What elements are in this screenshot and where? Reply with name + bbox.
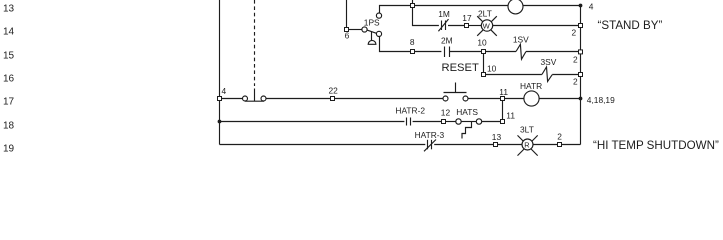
wire: mechanical linkage (dashed) to reset pushbutton above (254, 0, 256, 86)
svg-text:“HI TEMP SHUTDOWN”: “HI TEMP SHUTDOWN” (593, 139, 719, 152)
node: rung number 15 (3, 50, 15, 61)
svg-text:4,18,19: 4,18,19 (587, 95, 615, 105)
pilot light 3LT (red) (518, 135, 538, 155)
wire: rung 14 segment terminal 17 to lamp 2LT (469, 25, 482, 27)
svg-text:17: 17 (3, 96, 15, 107)
svg-text:10: 10 (487, 64, 497, 74)
svg-text:RESET: RESET (442, 62, 479, 74)
terminal 13 (494, 143, 498, 147)
terminal 2 (right bus, rung 15) (579, 50, 583, 54)
node: rung number 13 (3, 3, 15, 14)
terminal on rung 13 branch (411, 4, 415, 8)
wire: tie between terminal 11 rung 17 and terminal 11 rung 18 (502, 101, 504, 120)
wire: rung 17 segment pushbutton to terminal 22 (266, 98, 331, 100)
svg-text:2: 2 (573, 76, 578, 86)
label: wire numbers 4,18,19 (587, 95, 615, 105)
terminal 17 (465, 24, 469, 28)
terminal 10 (rung 15) (482, 50, 486, 54)
pilot light 2LT (white) (477, 16, 497, 36)
svg-text:11: 11 (499, 87, 508, 97)
svg-text:2M: 2M (441, 36, 453, 46)
junction: node 4 at top of right bus (579, 4, 583, 8)
svg-text:18: 18 (3, 120, 15, 131)
wire: rung 19 segment HATR-3 to terminal 13 (434, 144, 493, 146)
wire: drop from rung 12 to terminal 6 (346, 0, 348, 28)
label: "HI TEMP SHUTDOWN" (593, 139, 719, 152)
wire: tie between terminal 10 rung 15 and terminal 10 rung 16 (483, 54, 485, 73)
wire: rung 15 segment terminal 10 to 1SV (486, 51, 517, 53)
wire: rung 14 segment lamp 2LT to right bus terminal 2 (493, 25, 579, 27)
svg-text:12: 12 (441, 108, 451, 118)
label: RESET (442, 62, 479, 74)
wire: rung 16 segment 3SV to right bus terminal 2 (552, 74, 579, 76)
pressure switch 1PS (362, 13, 382, 44)
terminal 22 (331, 97, 335, 101)
contact HATR-2 (NO) (407, 118, 411, 126)
terminal 8 (411, 50, 415, 54)
junction: node 4,18,19 on right bus rung 17 (579, 97, 583, 101)
coil M (rung 13, top cut off) (508, 0, 523, 14)
terminal 12 (442, 120, 446, 124)
wire: rung 15 segment 2M to terminal 10 (450, 51, 482, 53)
node: rung number 14 (3, 26, 15, 37)
svg-text:17: 17 (462, 13, 472, 23)
wire: rung 17 segment terminal 4 to reset NC pushbutton (222, 98, 243, 100)
svg-text:15: 15 (3, 50, 15, 61)
svg-text:6: 6 (345, 31, 350, 41)
wire: rung 19 from left bus to HATR-3 (220, 144, 426, 146)
wire: rung 17 segment coil HATR to right bus (539, 98, 581, 100)
wire: 1PS common to terminal 6 (349, 29, 363, 31)
svg-text:2: 2 (557, 131, 562, 141)
node: rung number 16 (3, 73, 15, 84)
svg-text:1PS: 1PS (364, 17, 380, 27)
wire: branch from rung 13 down to rung 14 (413, 8, 439, 26)
svg-text:19: 19 (3, 143, 15, 154)
wire: rung 17 segment terminal 22 to test pushbutton (335, 98, 444, 100)
wire: rung 18 segment left bus to HATR-2 (220, 121, 405, 123)
temperature switch HATS (456, 119, 482, 139)
wire: drop from 1PS lower contact to rung 15 (380, 36, 411, 51)
wire: rung 17 segment terminal 11 to coil HATR (505, 98, 525, 100)
svg-text:8: 8 (410, 37, 415, 47)
contact 2M (NO) (445, 47, 450, 58)
svg-text:HATR-3: HATR-3 (415, 130, 445, 140)
terminal 4 (left bus, rung 17) (218, 97, 222, 101)
wire: rung 18 segment HATR-2 to terminal 12 (413, 121, 442, 123)
svg-text:16: 16 (3, 73, 15, 84)
solenoid valve 1SV (516, 44, 526, 59)
terminal 11 (rung 18) (501, 120, 505, 124)
svg-text:2: 2 (573, 54, 578, 64)
terminal 6 (345, 28, 349, 32)
svg-text:13: 13 (492, 132, 502, 142)
svg-text:4: 4 (589, 2, 594, 12)
svg-text:3LT: 3LT (520, 124, 534, 134)
svg-text:HATR-2: HATR-2 (395, 106, 425, 116)
wire: rung 15 segment 1SV to right bus terminal 2 (526, 51, 579, 53)
svg-text:10: 10 (477, 38, 487, 48)
terminal 10 (rung 16) (482, 73, 486, 77)
wire: rung 13 horizontal (node 4) (380, 6, 581, 14)
svg-text:1SV: 1SV (513, 34, 529, 44)
wire: rung 17 segment pushbutton to terminal 11 (468, 98, 501, 100)
relay coil HATR (524, 91, 539, 106)
node: rung number 18 (3, 120, 15, 131)
svg-text:2: 2 (572, 27, 577, 37)
svg-text:“STAND BY”: “STAND BY” (598, 19, 663, 32)
label: "STAND BY" (598, 19, 663, 32)
contact HATR-3 (NC) (424, 140, 436, 152)
node: rung number 17 (3, 96, 15, 107)
wire: rung 19 segment terminal 13 to lamp 3LT (498, 144, 523, 146)
svg-text:HATR: HATR (520, 81, 542, 91)
pushbutton reset NC (linked, rung 17) (243, 89, 267, 102)
wire: rung 14 segment between 1M and terminal 17 (448, 25, 465, 27)
terminal 2 (right bus, rung 14) (579, 24, 583, 28)
svg-text:4: 4 (222, 86, 227, 96)
svg-text:14: 14 (3, 26, 15, 37)
wire: rung 18 segment HATS to terminal 11 (482, 121, 501, 123)
label: wire number 4 (top right) (589, 2, 594, 12)
svg-text:W: W (483, 21, 491, 30)
svg-text:11: 11 (506, 111, 515, 121)
junction: left bus rung 18 (218, 120, 222, 124)
wire: rung 19 segment lamp 3LT to terminal 2 (533, 144, 558, 146)
svg-text:13: 13 (3, 3, 15, 14)
terminal 2 (right bus, rung 16) (579, 73, 583, 77)
node: rung number 19 (3, 143, 15, 154)
svg-text:HATS: HATS (456, 107, 478, 117)
svg-text:2LT: 2LT (478, 8, 492, 18)
solenoid valve 3SV (542, 67, 552, 82)
pushbutton NO (rung 17) (443, 83, 468, 102)
svg-text:1M: 1M (438, 9, 450, 19)
svg-text:22: 22 (329, 85, 339, 95)
svg-text:3SV: 3SV (541, 57, 557, 67)
wire: rung 16 segment terminal 10 to 3SV (486, 74, 542, 76)
wire: rung 18 segment terminal 12 to HATS (446, 121, 456, 123)
wire: rung 19 segment terminal 2 to right bus (562, 144, 581, 146)
svg-text:R: R (524, 140, 529, 149)
terminal 11 (rung 17) (501, 97, 505, 101)
terminal 2 (rung 19) (558, 143, 562, 147)
contact 1M (NC) (438, 19, 448, 31)
wire: branch stub above terminal on rung 13 (412, 0, 414, 4)
wire: left vertical bus (219, 0, 221, 145)
wire: right vertical bus (580, 6, 582, 145)
wire: rung 15 segment terminal 8 to 2M (415, 51, 442, 53)
